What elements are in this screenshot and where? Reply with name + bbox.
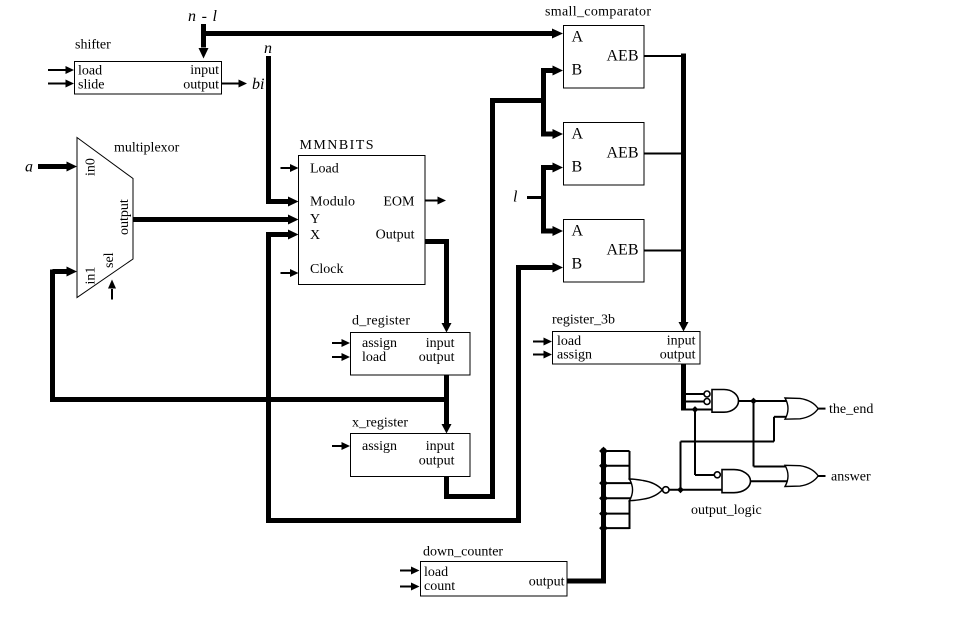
svg-text:multiplexor: multiplexor xyxy=(114,141,180,156)
svg-text:down_counter: down_counter xyxy=(423,545,503,560)
svg-text:B: B xyxy=(572,256,583,273)
svg-text:AEB: AEB xyxy=(607,242,639,259)
svg-text:output: output xyxy=(183,78,219,93)
svg-text:A: A xyxy=(572,29,584,46)
svg-text:Output: Output xyxy=(376,228,415,243)
svg-text:n: n xyxy=(264,40,272,57)
svg-text:output: output xyxy=(419,454,455,469)
svg-text:in1: in1 xyxy=(84,267,99,285)
svg-text:output_logic: output_logic xyxy=(691,503,762,518)
svg-text:sel: sel xyxy=(102,252,117,268)
svg-text:assign: assign xyxy=(557,348,592,363)
svg-text:small_comparator: small_comparator xyxy=(545,5,651,20)
svg-text:MMNBITS: MMNBITS xyxy=(300,138,374,153)
svg-text:input: input xyxy=(426,439,455,454)
svg-text:A: A xyxy=(572,126,584,143)
svg-text:l: l xyxy=(513,189,518,206)
svg-text:Modulo: Modulo xyxy=(310,195,355,210)
svg-text:AEB: AEB xyxy=(607,145,639,162)
svg-text:input: input xyxy=(667,334,696,349)
svg-text:B: B xyxy=(572,62,583,79)
svg-text:output: output xyxy=(660,348,696,363)
svg-text:in0: in0 xyxy=(84,158,99,176)
svg-text:bi: bi xyxy=(252,76,264,93)
svg-text:output: output xyxy=(419,350,455,365)
svg-text:the_end: the_end xyxy=(829,402,873,417)
svg-text:x_register: x_register xyxy=(352,416,408,431)
svg-text:load: load xyxy=(362,350,386,365)
svg-text:Y: Y xyxy=(310,212,320,227)
svg-text:AEB: AEB xyxy=(607,48,639,65)
svg-text:answer: answer xyxy=(831,470,871,485)
svg-text:output: output xyxy=(529,575,565,590)
svg-text:input: input xyxy=(190,63,219,78)
svg-text:Clock: Clock xyxy=(310,262,343,277)
svg-text:d_register: d_register xyxy=(352,314,410,329)
svg-text:load: load xyxy=(78,64,102,79)
svg-text:X: X xyxy=(310,228,320,243)
svg-text:register_3b: register_3b xyxy=(552,313,615,328)
svg-text:assign: assign xyxy=(362,336,397,351)
svg-text:a: a xyxy=(25,159,33,176)
svg-text:load: load xyxy=(424,565,448,580)
svg-text:n - l: n - l xyxy=(188,8,218,25)
svg-text:slide: slide xyxy=(78,78,104,93)
svg-text:B: B xyxy=(572,159,583,176)
svg-text:count: count xyxy=(424,579,455,594)
svg-text:shifter: shifter xyxy=(75,38,111,53)
svg-text:A: A xyxy=(572,223,584,240)
svg-text:EOM: EOM xyxy=(383,195,415,210)
svg-text:output: output xyxy=(117,199,132,235)
svg-text:Load: Load xyxy=(310,162,339,177)
svg-text:input: input xyxy=(426,336,455,351)
svg-text:assign: assign xyxy=(362,439,397,454)
